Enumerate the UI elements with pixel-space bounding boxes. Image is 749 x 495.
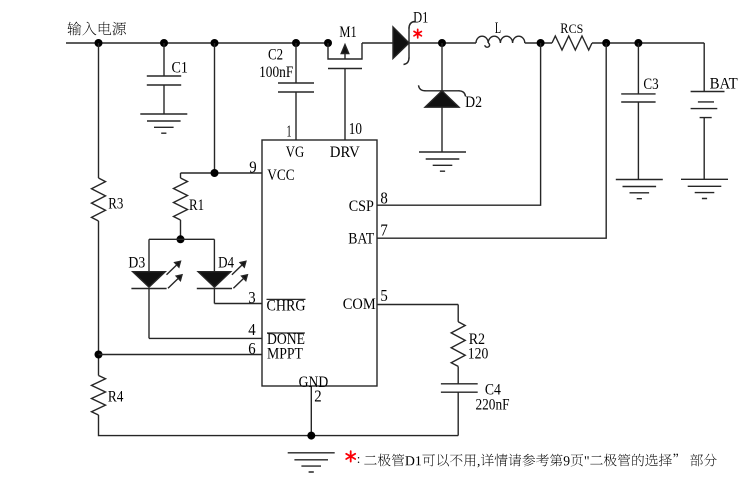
svg-text:R3: R3 bbox=[108, 195, 123, 212]
resistor Rcs bbox=[552, 21, 592, 50]
wire D1 to L bbox=[409, 42, 476, 44]
svg-text:7: 7 bbox=[380, 220, 388, 239]
node CSP junction bbox=[537, 39, 545, 47]
LED D4 bbox=[197, 239, 248, 303]
ground C1 bbox=[140, 114, 187, 133]
pin 4 DONE bbox=[149, 320, 305, 348]
resistor R2 120 bbox=[451, 305, 488, 384]
node C3 junction bbox=[634, 39, 642, 47]
svg-text:120: 120 bbox=[468, 346, 489, 363]
svg-text:MPPT: MPPT bbox=[267, 345, 303, 362]
node VCC drop junction bbox=[211, 39, 219, 47]
wire LED rail bbox=[149, 238, 214, 240]
node LED junction bbox=[177, 235, 185, 243]
svg-text:D1: D1 bbox=[413, 9, 428, 26]
capacitor C1 bbox=[147, 43, 188, 114]
pin 1 VG bbox=[286, 122, 305, 162]
wire D2 branch bbox=[441, 43, 443, 91]
diode D2 (schottky to ground) bbox=[419, 85, 483, 152]
resistor R3 bbox=[92, 178, 124, 221]
svg-text:5: 5 bbox=[380, 286, 387, 305]
ground main bbox=[288, 453, 335, 472]
ground D2 bbox=[419, 152, 466, 171]
ground BAT bbox=[681, 179, 728, 198]
node C2 junction bbox=[292, 39, 300, 47]
node C1 junction bbox=[160, 39, 168, 47]
svg-text:L: L bbox=[495, 20, 501, 37]
svg-text:9: 9 bbox=[249, 158, 256, 177]
svg-text:D2: D2 bbox=[465, 94, 482, 111]
transistor M1 bbox=[328, 24, 362, 69]
node D2 junction bbox=[438, 39, 446, 47]
svg-text:D3: D3 bbox=[128, 254, 145, 271]
svg-text:3: 3 bbox=[248, 288, 255, 307]
svg-text:BAT: BAT bbox=[348, 231, 374, 248]
pin 6 MPPT bbox=[99, 339, 304, 363]
svg-text:R4: R4 bbox=[108, 389, 124, 406]
svg-text::: : bbox=[357, 451, 361, 466]
svg-text:4: 4 bbox=[248, 320, 256, 339]
ground C3 bbox=[616, 180, 663, 199]
svg-text:R1: R1 bbox=[189, 197, 204, 214]
svg-text:VG: VG bbox=[286, 144, 305, 161]
svg-text:C2: C2 bbox=[268, 47, 283, 64]
svg-text:VCC: VCC bbox=[267, 167, 294, 184]
pin 7 BAT bbox=[348, 43, 606, 248]
capacitor C3 bbox=[621, 43, 658, 180]
输入电源 input power label bbox=[68, 22, 127, 36]
wire R4 to bottom rail bbox=[99, 415, 459, 436]
inductor L bbox=[476, 20, 525, 47]
svg-text:100nF: 100nF bbox=[259, 64, 293, 81]
svg-text:DRV: DRV bbox=[330, 144, 360, 161]
svg-text:1: 1 bbox=[287, 122, 292, 141]
wire Rcs to right bbox=[592, 42, 704, 44]
pin 5 COM bbox=[343, 286, 458, 313]
red asterisk for D1 bbox=[414, 29, 421, 38]
wire top rail left bbox=[66, 42, 328, 44]
resistor R1 bbox=[174, 173, 205, 239]
svg-text:COM: COM bbox=[343, 296, 376, 313]
battery BAT bbox=[691, 43, 738, 179]
pin 10 DRV bbox=[330, 69, 362, 162]
node MPPT junction bbox=[95, 351, 103, 359]
pin 3 CHRG bbox=[214, 288, 305, 315]
svg-text:220nF: 220nF bbox=[476, 397, 510, 414]
pin 8 CSP bbox=[349, 43, 541, 215]
wire M1 drain to D1 bbox=[362, 42, 393, 44]
node bottom GND junction bbox=[307, 432, 315, 440]
svg-text:8: 8 bbox=[380, 188, 387, 207]
capacitor C4 220nF bbox=[441, 382, 510, 436]
red asterisk note bbox=[346, 451, 355, 461]
svg-text:CSP: CSP bbox=[349, 198, 374, 215]
wire R3 to MPPT node bbox=[98, 221, 100, 376]
svg-text:R: R bbox=[560, 21, 568, 37]
svg-text:D4: D4 bbox=[218, 254, 234, 271]
svg-text:C3: C3 bbox=[643, 76, 658, 93]
svg-text:10: 10 bbox=[349, 119, 362, 138]
capacitor C2 100nF bbox=[259, 43, 314, 140]
node BAT pin7 junction bbox=[602, 39, 610, 47]
op-amp U1 charge controller IC bbox=[262, 140, 377, 386]
node input junction bbox=[95, 39, 103, 47]
resistor R4 bbox=[92, 376, 124, 416]
node M1 source junction bbox=[324, 39, 332, 47]
svg-text:6: 6 bbox=[248, 339, 255, 358]
pin 9 VCC bbox=[181, 43, 295, 184]
pin 2 GND bbox=[299, 374, 329, 436]
svg-text:C1: C1 bbox=[172, 60, 188, 77]
svg-text:2: 2 bbox=[314, 387, 321, 406]
svg-text:M1: M1 bbox=[339, 24, 356, 41]
svg-text:BAT: BAT bbox=[710, 75, 738, 92]
diode D1 (schottky) bbox=[393, 9, 428, 64]
wire L to Rcs bbox=[525, 42, 552, 44]
LED D3 bbox=[128, 239, 182, 338]
note text 二极管D1可以不用 bbox=[364, 454, 717, 468]
svg-text:CS: CS bbox=[569, 22, 584, 36]
wire left branch down to R3 bbox=[98, 43, 100, 178]
